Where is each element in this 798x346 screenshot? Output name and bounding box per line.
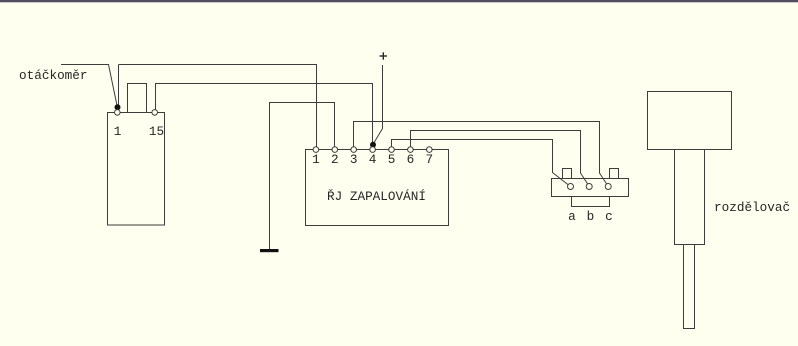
svg-text:c: c	[605, 209, 613, 224]
wire coil terminal 15 to ŘJ terminal 4	[156, 84, 373, 145]
connector pin b circle	[586, 184, 592, 190]
wire + supply to ŘJ terminal 4	[374, 65, 383, 144]
wire ŘJ terminal 5 to pin a	[392, 140, 569, 186]
window top edge bar	[0, 0, 798, 2]
wire ŘJ terminal 6 to pin b	[411, 131, 589, 185]
ignition coil box	[108, 113, 165, 226]
connector body	[552, 179, 629, 197]
junction dot ŘJ terminal 4	[370, 142, 376, 148]
svg-text:7: 7	[425, 152, 433, 167]
connector pin a circle	[568, 184, 574, 190]
label pointer line (otáčkoměr)	[61, 65, 117, 106]
connector bottom tab	[572, 197, 610, 207]
junction dot coil terminal 1	[115, 104, 121, 110]
ŘJ terminal 5 circle	[389, 147, 395, 153]
svg-text:1: 1	[114, 124, 122, 139]
svg-text:otáčkoměr: otáčkoměr	[19, 68, 88, 83]
rozdělovač body stem	[675, 150, 705, 245]
coil terminal 1 circle	[115, 110, 121, 116]
svg-text:rozdělovač: rozdělovač	[714, 200, 790, 215]
ŘJ terminal 1 circle	[313, 147, 319, 153]
wire ŘJ terminal 3 to pin c	[354, 122, 608, 185]
coil terminal 15 circle	[152, 110, 158, 116]
svg-text:a: a	[568, 209, 576, 224]
wire	[119, 65, 317, 148]
svg-text:5: 5	[388, 152, 396, 167]
svg-text:6: 6	[407, 152, 415, 167]
connector left tab	[563, 169, 572, 179]
svg-text:3: 3	[350, 152, 358, 167]
svg-text:15: 15	[149, 124, 164, 139]
rozdělovač cap box	[648, 92, 732, 150]
wire ŘJ terminal 2 to ground	[270, 103, 335, 250]
svg-text:2: 2	[331, 152, 339, 167]
ŘJ terminal 3 circle	[351, 147, 357, 153]
rozdělovač shaft	[684, 245, 695, 329]
coil top notch	[128, 84, 147, 113]
svg-text:4: 4	[369, 152, 377, 167]
+ supply symbol	[380, 52, 388, 59]
ŘJ terminal 2 circle	[332, 147, 338, 153]
wire coil terminal 1 to ŘJ terminal 1	[118, 65, 120, 106]
ŘJ terminal 4 circle	[370, 147, 376, 153]
svg-text:1: 1	[312, 152, 320, 167]
connector pin c circle	[605, 184, 611, 190]
ŘJ terminal 6 circle	[408, 147, 414, 153]
ŘJ ZAPALOVÁNÍ box	[306, 150, 449, 226]
ŘJ terminal 7 circle	[427, 147, 433, 153]
ground symbol	[260, 249, 279, 252]
svg-text:ŘJ ZAPALOVÁNÍ: ŘJ ZAPALOVÁNÍ	[327, 189, 426, 204]
connector right tab	[610, 169, 619, 179]
svg-text:b: b	[587, 209, 595, 224]
